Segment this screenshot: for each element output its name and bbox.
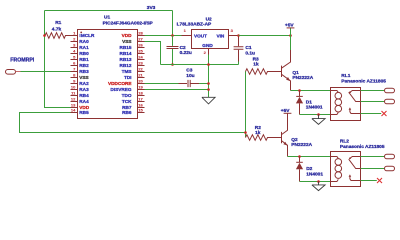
svg-text:19: 19 xyxy=(138,85,143,90)
capacitor C3 xyxy=(145,68,209,88)
connector FROMRPI xyxy=(6,58,35,74)
svg-text:TDO: TDO xyxy=(122,93,132,98)
connector pad RL1 top xyxy=(385,88,395,93)
svg-text:D1: D1 xyxy=(306,99,312,105)
transistor Q2 PN2222A xyxy=(282,113,313,156)
pin 11 RB4 xyxy=(71,91,90,99)
svg-text:VDDCORE: VDDCORE xyxy=(108,81,131,86)
svg-text:C3: C3 xyxy=(186,68,192,74)
wire RL2 common to pad xyxy=(361,168,385,170)
connector pad RL1 mid xyxy=(385,99,395,104)
svg-text:Panasonic AZ11805: Panasonic AZ11805 xyxy=(340,144,385,150)
svg-text:22: 22 xyxy=(138,67,143,72)
wire Q1 emitter to RL1 coil top xyxy=(291,90,331,92)
node junction VIN / C1 xyxy=(237,34,240,37)
pin 15 RB6 xyxy=(122,108,144,116)
svg-text:VSS: VSS xyxy=(79,75,88,80)
svg-text:VIN: VIN xyxy=(217,33,225,38)
wire VIN to +5V xyxy=(239,35,291,37)
pin 10 RA3 xyxy=(71,85,90,93)
relay RL2 Panasonic AZ11805 xyxy=(331,138,385,186)
svg-text:0.22u: 0.22u xyxy=(180,50,192,56)
wire VSS pin27 down to ground rail xyxy=(145,42,161,65)
resistor R1 xyxy=(45,20,71,39)
svg-text:TCK: TCK xyxy=(122,99,132,104)
svg-text:RB2: RB2 xyxy=(79,63,89,68)
op-amp U2 L78L33ABZ-AP regulator xyxy=(177,16,239,55)
coil RL2 xyxy=(331,157,339,159)
svg-text:28: 28 xyxy=(138,31,143,36)
svg-text:C2: C2 xyxy=(180,45,186,51)
ground at RL1 xyxy=(312,115,325,125)
svg-text:RA0: RA0 xyxy=(79,39,89,44)
pin 27 VSS xyxy=(122,37,144,45)
node junction RB5 wire / base column xyxy=(244,131,247,134)
svg-text:0.1u: 0.1u xyxy=(245,51,255,57)
wire VDD pin28 to regulator xyxy=(145,35,182,37)
wire RL1 common to pad xyxy=(361,101,385,103)
svg-text:RB3: RB3 xyxy=(79,69,89,74)
wire 3V3 left drop to VDD pin13 xyxy=(45,11,71,108)
node junction D1 cathode xyxy=(298,89,301,92)
svg-text:VOUT: VOUT xyxy=(194,33,207,38)
svg-text:+5V: +5V xyxy=(285,23,294,29)
svg-text:RA3: RA3 xyxy=(79,87,89,92)
svg-text:1N4001: 1N4001 xyxy=(306,171,323,177)
switch RL1 xyxy=(349,92,361,101)
svg-text:DISVREG: DISVREG xyxy=(110,87,131,92)
ground under U2 xyxy=(202,97,215,104)
pin 3 VIN xyxy=(229,35,239,37)
svg-text:VDD: VDD xyxy=(122,33,133,38)
pin 21 TDI xyxy=(124,73,145,81)
svg-text:RA2: RA2 xyxy=(79,81,89,86)
wire RL2 NC stub xyxy=(361,180,377,182)
svg-text:4.7k: 4.7k xyxy=(52,26,62,32)
svg-text:RB12: RB12 xyxy=(120,63,132,68)
svg-text:FROMRPI: FROMRPI xyxy=(10,58,34,64)
svg-text:PN2222A: PN2222A xyxy=(291,142,312,148)
svg-text:1k: 1k xyxy=(253,61,259,67)
svg-text:VSS: VSS xyxy=(122,39,131,44)
svg-text:RB15: RB15 xyxy=(120,45,132,50)
capacitor C2 xyxy=(167,36,192,65)
wire FROMRPI to RB3 pin7 xyxy=(21,71,71,73)
node junction rail / gnd column xyxy=(207,63,210,66)
svg-text:27: 27 xyxy=(138,37,143,42)
pin 17 TCK xyxy=(122,97,145,105)
node junction R1 / 3V3 rail xyxy=(43,34,46,37)
node junction C2 / ground rail xyxy=(171,63,174,66)
svg-text:15: 15 xyxy=(138,108,143,113)
svg-text:GND: GND xyxy=(202,43,213,48)
pin 13 VDD xyxy=(71,103,90,111)
wire 3V3 right drop to U2 VOUT xyxy=(172,11,174,36)
pin 2 GND xyxy=(208,49,210,55)
svg-text:L78L33ABZ-AP: L78L33ABZ-AP xyxy=(177,22,212,28)
pin 12 RA4 xyxy=(71,97,90,105)
svg-text:U1: U1 xyxy=(104,15,110,21)
node junction ground tap RL2 xyxy=(317,180,320,183)
resistor R3 xyxy=(246,56,282,74)
svg-text:1N4001: 1N4001 xyxy=(306,105,323,111)
node no-connect X RL1 xyxy=(382,111,387,116)
supply +5V (top) xyxy=(285,23,295,36)
svg-text:20: 20 xyxy=(138,79,143,84)
wire 3V3 top rail xyxy=(45,10,173,12)
svg-text:RL1: RL1 xyxy=(341,73,350,79)
wire D2 anode to RL2 coil bottom xyxy=(300,181,331,183)
svg-text:U2: U2 xyxy=(206,16,212,22)
svg-text:14: 14 xyxy=(71,108,76,113)
wire U2 GND column down xyxy=(208,55,210,98)
svg-text:21: 21 xyxy=(138,73,143,78)
svg-text:3V3: 3V3 xyxy=(147,5,156,11)
svg-text:PN2222A: PN2222A xyxy=(292,75,313,81)
svg-text:26: 26 xyxy=(138,43,143,48)
node junction D2 cathode xyxy=(298,155,301,158)
wire RL1 NO contact to pad xyxy=(361,90,385,92)
node junction ground tap RL1 xyxy=(317,113,320,116)
svg-text:23: 23 xyxy=(138,61,143,66)
node junction +5V xyxy=(289,34,292,37)
wire RB5 pin14 loop to base resistors xyxy=(20,113,246,133)
svg-text:24: 24 xyxy=(138,55,143,60)
pin 25 RB14 xyxy=(120,49,145,57)
switch RL2 xyxy=(349,159,361,168)
ground at RL2 xyxy=(312,182,325,191)
pin 24 RB13 xyxy=(120,55,145,63)
pin 4 RB0 xyxy=(71,49,90,57)
svg-text:18: 18 xyxy=(138,91,143,96)
svg-text:RA4: RA4 xyxy=(79,99,89,104)
connector pad RL2 mid xyxy=(385,166,395,171)
svg-text:RB13: RB13 xyxy=(120,57,132,62)
supply +5V (Q2 collector) xyxy=(281,108,292,114)
pin 1 VOUT xyxy=(182,35,192,37)
pin 1 !MCLR xyxy=(71,31,96,39)
pin 26 RB15 xyxy=(120,43,145,51)
svg-text:RB6: RB6 xyxy=(122,110,132,115)
wire Q2 emitter to RL2 coil top xyxy=(288,156,331,158)
connector pad RL2 top xyxy=(385,154,395,159)
pin 5 RB1 xyxy=(71,55,90,63)
svg-text:D2: D2 xyxy=(306,166,312,172)
pin 19 DISVREG xyxy=(110,85,144,93)
svg-text:10: 10 xyxy=(71,85,76,90)
node junction DISVREG / gnd column xyxy=(207,88,210,91)
pin 9 RA2 xyxy=(71,79,90,87)
pin 22 TMS xyxy=(122,67,145,75)
node no-connect X RL2 xyxy=(377,178,382,183)
op-amp U1 PIC24FJ64GA002-I/SP microcontroller xyxy=(71,15,154,119)
svg-text:RB14: RB14 xyxy=(120,51,132,56)
svg-text:TDI: TDI xyxy=(124,75,132,80)
svg-text:!MCLR: !MCLR xyxy=(79,33,95,38)
pin 23 RB12 xyxy=(120,61,145,69)
svg-text:1k: 1k xyxy=(255,130,261,136)
pin 16 RB7 xyxy=(122,103,144,111)
svg-text:RA1: RA1 xyxy=(79,45,89,50)
svg-text:TMS: TMS xyxy=(122,69,132,74)
wire base column R3 to R2 xyxy=(245,72,247,138)
svg-text:PIC24FJ64GA002-I/SP: PIC24FJ64GA002-I/SP xyxy=(103,21,154,27)
pin 7 RB3 xyxy=(71,67,90,75)
capacitor C1 xyxy=(234,36,255,65)
svg-text:+5V: +5V xyxy=(281,108,290,114)
pin 8 VSS xyxy=(71,73,89,81)
pin 2 RA0 xyxy=(71,37,90,45)
pin 28 VDD xyxy=(122,31,145,39)
diode D1 1N4001 xyxy=(296,91,323,115)
pin 6 RB2 xyxy=(71,61,90,69)
svg-text:RL2: RL2 xyxy=(340,138,349,144)
wire ground rail xyxy=(161,64,239,66)
svg-text:12: 12 xyxy=(71,97,76,102)
relay RL1 Panasonic AZ11805 xyxy=(331,73,387,120)
pin 14 RB5 xyxy=(71,108,90,116)
diode D2 1N4001 xyxy=(296,157,323,182)
pin 3 RA1 xyxy=(71,43,90,51)
transistor Q1 PN2222A xyxy=(282,36,314,91)
svg-text:10u: 10u xyxy=(186,73,194,79)
node junction C3 / gnd column xyxy=(207,82,210,85)
coil RL1 xyxy=(331,91,339,93)
resistor R2 xyxy=(246,125,282,140)
svg-text:R1: R1 xyxy=(55,20,61,26)
pin 18 TDO xyxy=(122,91,145,99)
node junction VDD28 / 3V3 / C2 xyxy=(171,34,174,37)
svg-text:C1: C1 xyxy=(245,45,251,51)
svg-text:17: 17 xyxy=(138,97,143,102)
svg-text:RB4: RB4 xyxy=(79,93,89,98)
wire D1 anode to RL1 coil bottom xyxy=(300,114,331,116)
wire RL2 NO contact to pad xyxy=(361,156,385,158)
svg-text:RB0: RB0 xyxy=(79,51,89,56)
svg-text:25: 25 xyxy=(138,49,143,54)
wire RL1 NC stub xyxy=(361,113,382,115)
svg-text:Panasonic AZ11805: Panasonic AZ11805 xyxy=(341,78,386,84)
pin 20 VDDCORE xyxy=(108,79,144,87)
svg-text:RB1: RB1 xyxy=(79,57,89,62)
svg-text:RB5: RB5 xyxy=(79,110,89,115)
wire DISVREG pin19 to ground column xyxy=(145,89,209,91)
